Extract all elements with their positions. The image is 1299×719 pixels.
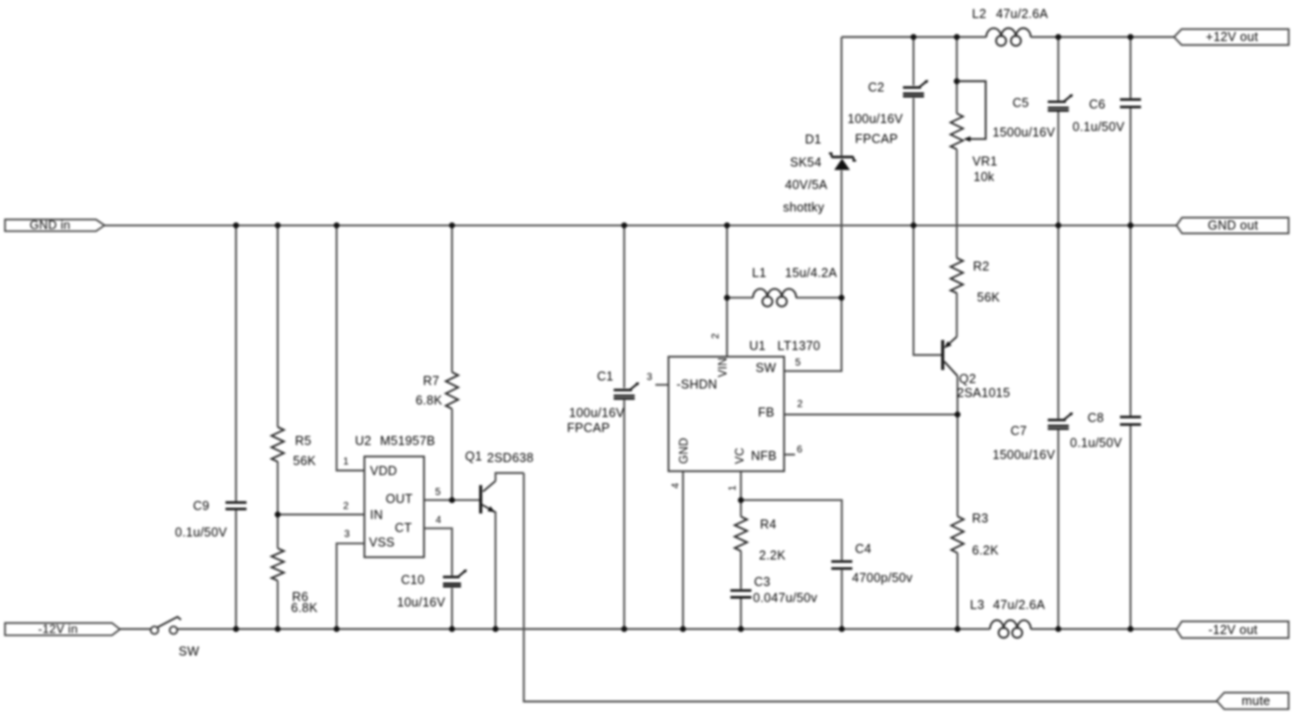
- wire Q1 emitter to -12V: [495, 512, 497, 630]
- capacitor C8: [1070, 411, 1141, 450]
- capacitor C5: [993, 94, 1074, 139]
- pin 6 U1 NFB: [797, 445, 803, 456]
- wire C2 column and Q2 base net: [914, 37, 942, 355]
- resistor R5: [272, 427, 317, 468]
- wire C5-C7 column: [1057, 37, 1059, 629]
- wire D1 column / SW net: [784, 37, 841, 371]
- junction GND/R7: [449, 222, 455, 228]
- svg-text:SW: SW: [756, 361, 777, 375]
- junction -12V/R3: [955, 626, 961, 632]
- svg-text:FPCAP: FPCAP: [855, 132, 898, 146]
- wire U2 OUT to Q1 base: [424, 499, 479, 501]
- junction L1 left / VIN: [724, 295, 730, 301]
- junction FB / Q2 collector: [955, 412, 961, 418]
- inductor L3: [970, 598, 1045, 638]
- svg-text:R4: R4: [760, 517, 776, 531]
- svg-text:6.8K: 6.8K: [416, 394, 443, 408]
- transistor Q2 2SA1015: [943, 337, 1010, 400]
- pin 4 U2: [436, 515, 442, 526]
- svg-text:GND out: GND out: [1208, 219, 1259, 233]
- wire C1 column: [623, 225, 625, 629]
- wire GND rail to U1 VIN: [726, 225, 728, 356]
- wire U2 pin4 CT to C10: [424, 528, 452, 629]
- junction -12V/C1: [621, 626, 627, 632]
- wire mute net: [496, 473, 1218, 702]
- capacitor C10: [397, 570, 467, 610]
- resistor R2: [951, 258, 1001, 305]
- resistor R6: [272, 548, 319, 615]
- svg-text:LT1370: LT1370: [777, 339, 820, 353]
- junction +12V/C2: [911, 34, 917, 40]
- wire U1 FB net: [784, 414, 957, 416]
- svg-text:100u/16V: 100u/16V: [848, 112, 904, 126]
- svg-text:VIN: VIN: [718, 357, 730, 377]
- svg-text:R5: R5: [295, 434, 311, 448]
- junction -12V/Q1 emitter: [493, 626, 499, 632]
- svg-text:C3: C3: [754, 575, 770, 589]
- svg-text:0.1u/50V: 0.1u/50V: [1073, 120, 1125, 134]
- svg-text:M51957B: M51957B: [380, 434, 435, 448]
- junction -12V/C3: [738, 626, 744, 632]
- svg-text:3: 3: [647, 372, 653, 383]
- wire -12V rail: [120, 628, 1177, 630]
- svg-text:10k: 10k: [974, 170, 995, 184]
- wire L1 leads: [727, 297, 842, 299]
- svg-text:OUT: OUT: [386, 492, 413, 506]
- junction -12V/U2 VSS: [334, 626, 340, 632]
- svg-text:5: 5: [435, 487, 441, 498]
- svg-text:1: 1: [727, 485, 738, 491]
- pin 3 U1 SHDN: [647, 372, 653, 383]
- svg-text:VC: VC: [734, 447, 746, 463]
- svg-text:0.1u/50V: 0.1u/50V: [175, 526, 227, 540]
- op-amp U1 LT1370 body: [669, 339, 821, 471]
- svg-text:Q1: Q1: [465, 450, 482, 464]
- op-amp U2 M51957B body: [355, 434, 435, 557]
- switch SW: [151, 617, 200, 659]
- wire R7 column: [451, 225, 453, 500]
- node -12V in flag: [5, 622, 120, 636]
- svg-text:L1: L1: [752, 266, 766, 280]
- diode D1 SK54: [783, 133, 856, 215]
- wire U1 NFB stub: [784, 454, 795, 456]
- pin 4 U1 GND: [671, 483, 682, 489]
- svg-text:3: 3: [344, 529, 350, 540]
- junction -12V/C8: [1128, 626, 1134, 632]
- wire U2 pin2 IN net: [278, 514, 365, 516]
- svg-text:C4: C4: [855, 542, 871, 556]
- svg-text:mute: mute: [1242, 694, 1271, 708]
- svg-text:0.047u/50v: 0.047u/50v: [753, 591, 818, 605]
- wire C9 column: [235, 225, 237, 629]
- capacitor C4: [831, 542, 913, 585]
- svg-text:GND in: GND in: [30, 218, 71, 232]
- svg-text:L3: L3: [970, 598, 984, 612]
- junction GND/C1: [621, 222, 627, 228]
- junction -12V/R6: [275, 626, 281, 632]
- svg-text:40V/5A: 40V/5A: [785, 178, 828, 192]
- wire R4 to C3: [740, 551, 742, 629]
- svg-text:C9: C9: [193, 499, 209, 513]
- pin 2 U2: [343, 501, 349, 512]
- svg-text:SK54: SK54: [790, 156, 822, 170]
- resistor R4: [735, 517, 786, 563]
- pin 5 U1 SW: [795, 357, 801, 368]
- pin 1 U2: [343, 457, 349, 468]
- svg-text:4700p/50v: 4700p/50v: [852, 571, 913, 585]
- svg-text:+12V out: +12V out: [1206, 30, 1259, 44]
- svg-text:shottky: shottky: [783, 201, 825, 215]
- svg-text:IN: IN: [370, 508, 383, 522]
- svg-text:6: 6: [797, 445, 803, 456]
- junction VC / R4 / C4: [738, 497, 744, 503]
- svg-text:U1: U1: [749, 339, 765, 353]
- svg-text:2.2K: 2.2K: [759, 549, 786, 563]
- wire VC node to C4: [741, 500, 842, 629]
- svg-text:CT: CT: [395, 521, 412, 535]
- node GND out flag: [1177, 218, 1289, 234]
- capacitor C1: [567, 370, 639, 436]
- pin 1 U1 VC: [727, 485, 738, 491]
- svg-text:GND: GND: [678, 438, 690, 464]
- inductor L2: [972, 7, 1048, 46]
- wire Q2 collector / FB / R3 column: [957, 376, 959, 629]
- svg-text:6.2K: 6.2K: [972, 544, 999, 558]
- svg-text:NFB: NFB: [751, 449, 777, 463]
- svg-text:-12V out: -12V out: [1208, 623, 1258, 637]
- wire U1 GND pin to -12V: [682, 471, 684, 629]
- svg-text:1: 1: [343, 457, 349, 468]
- svg-text:10u/16V: 10u/16V: [397, 596, 446, 610]
- svg-text:Q2: Q2: [959, 372, 976, 386]
- svg-text:C8: C8: [1088, 411, 1104, 425]
- wire +12V rail: [842, 36, 1175, 38]
- svg-text:R7: R7: [423, 374, 439, 388]
- junction -12V/C4: [839, 626, 845, 632]
- junction GND/C2/Q2 base: [911, 222, 917, 228]
- svg-text:L2: L2: [972, 7, 986, 21]
- svg-text:C7: C7: [1011, 424, 1027, 438]
- wire U1 VC pin 1: [740, 471, 742, 516]
- node -12V out flag: [1177, 621, 1289, 638]
- svg-text:4: 4: [436, 515, 442, 526]
- svg-text:2SA1015: 2SA1015: [957, 386, 1010, 400]
- svg-text:2: 2: [711, 333, 722, 339]
- svg-text:C1: C1: [597, 370, 613, 384]
- svg-text:VR1: VR1: [972, 155, 997, 169]
- resistor R3: [951, 512, 999, 558]
- junction +12V/C6: [1128, 34, 1134, 40]
- node GND in flag: [5, 218, 105, 232]
- junction +12V/C5: [1055, 34, 1061, 40]
- svg-text:C5: C5: [1013, 96, 1029, 110]
- pin 2 U1 FB: [797, 399, 803, 410]
- svg-text:C10: C10: [401, 573, 425, 587]
- svg-text:-SHDN: -SHDN: [677, 378, 718, 392]
- junction -12V/U1 GND: [680, 626, 686, 632]
- svg-text:2: 2: [343, 501, 349, 512]
- svg-text:1500u/16V: 1500u/16V: [993, 126, 1056, 140]
- pin 3 U2: [344, 529, 350, 540]
- svg-text:U2: U2: [355, 434, 371, 448]
- junction L1 right / SW / D1 anode: [839, 295, 845, 301]
- capacitor C3: [730, 575, 817, 605]
- svg-text:-12V in: -12V in: [38, 622, 78, 636]
- junction VR1 top node: [954, 78, 960, 84]
- junction -12V/C9: [233, 626, 239, 632]
- wire C6-C8 column: [1130, 37, 1132, 629]
- transistor Q1 2SD638: [465, 450, 534, 514]
- svg-text:R2: R2: [973, 260, 989, 274]
- wire U1 SHDN stub: [655, 384, 668, 386]
- junction GND/U1 VIN: [724, 222, 730, 228]
- junction +12V/VR1: [954, 34, 960, 40]
- junction GND/C5-C7: [1055, 222, 1061, 228]
- wire U2 pin3 VSS net: [337, 543, 365, 629]
- junction -12V/C7: [1055, 626, 1061, 632]
- node mute flag: [1217, 693, 1289, 710]
- wire U2 pin1 VDD net: [337, 225, 365, 470]
- svg-text:6.8K: 6.8K: [291, 601, 318, 615]
- svg-text:FB: FB: [758, 406, 774, 420]
- svg-text:SW: SW: [179, 645, 200, 659]
- svg-text:D1: D1: [805, 133, 821, 147]
- inductor L1: [752, 266, 837, 307]
- capacitor C7: [993, 412, 1074, 462]
- pin 2 U1 VIN: [711, 333, 722, 339]
- capacitor C6: [1073, 98, 1142, 135]
- junction R7 / U2 OUT: [449, 497, 455, 503]
- svg-text:1500u/16V: 1500u/16V: [993, 448, 1056, 462]
- capacitor C9: [175, 499, 247, 540]
- svg-text:5: 5: [795, 357, 801, 368]
- svg-text:15u/4.2A: 15u/4.2A: [785, 266, 837, 280]
- svg-text:R3: R3: [972, 512, 988, 526]
- svg-text:0.1u/50V: 0.1u/50V: [1070, 436, 1122, 450]
- svg-text:FPCAP: FPCAP: [567, 421, 610, 435]
- svg-text:56K: 56K: [977, 291, 1000, 305]
- svg-text:47u/2.6A: 47u/2.6A: [996, 7, 1048, 21]
- svg-text:2: 2: [797, 399, 803, 410]
- svg-text:C2: C2: [868, 81, 884, 95]
- wire GND rail: [105, 224, 1177, 226]
- svg-text:47u/2.6A: 47u/2.6A: [993, 598, 1045, 612]
- capacitor C2: [848, 80, 929, 146]
- resistor R7: [416, 372, 459, 409]
- svg-text:C6: C6: [1089, 98, 1105, 112]
- potentiometer VR1: [951, 81, 998, 184]
- junction GND/R5: [275, 222, 281, 228]
- junction GND/C6-C8: [1128, 222, 1134, 228]
- junction GND/C9: [233, 222, 239, 228]
- wire R5-R6 column: [277, 225, 279, 629]
- svg-text:4: 4: [671, 483, 682, 489]
- node +12V out flag: [1174, 29, 1289, 45]
- junction -12V/C10: [449, 626, 455, 632]
- svg-text:100u/16V: 100u/16V: [569, 406, 625, 420]
- svg-text:VSS: VSS: [369, 536, 395, 550]
- pin 5 U2: [435, 487, 441, 498]
- wire VR1-R2 column: [956, 37, 958, 337]
- svg-text:2SD638: 2SD638: [487, 451, 534, 465]
- junction R5/R6/U2 IN node: [275, 512, 281, 518]
- junction GND/U2 VDD: [334, 222, 340, 228]
- svg-text:VDD: VDD: [370, 464, 397, 478]
- svg-text:56K: 56K: [293, 454, 316, 468]
